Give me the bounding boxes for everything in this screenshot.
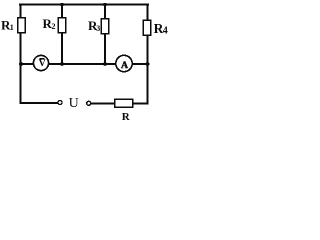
terminal right (-) (87, 101, 91, 105)
wire R to bottom-right corner (133, 102, 149, 104)
wire right branch lower (R4 bottom to bottom-right corner) (147, 35, 149, 104)
resistor R2 (58, 18, 66, 33)
wire R3 top lead (104, 4, 106, 19)
svg-text:2: 2 (52, 22, 56, 31)
resistor R (115, 99, 133, 107)
voltmeter V (33, 55, 48, 70)
ammeter A (116, 55, 132, 71)
resistor R3 (101, 19, 109, 34)
junction middle-right node (146, 62, 150, 66)
svg-text:U: U (69, 96, 79, 111)
wire R2 bottom lead (61, 33, 63, 65)
wire R3 bottom lead (104, 34, 106, 65)
svg-text:R: R (122, 111, 131, 122)
svg-text:1: 1 (10, 23, 14, 32)
svg-text:3: 3 (96, 24, 100, 33)
wire top bus (19, 4, 149, 6)
junction middle-left node (19, 62, 23, 66)
svg-text:A: A (121, 60, 128, 71)
wire terminal to R (91, 102, 115, 104)
resistor R4 (143, 20, 151, 35)
junction R2-top (60, 3, 64, 7)
wire R2 top lead (61, 4, 63, 18)
svg-text:4: 4 (163, 26, 168, 37)
wire left branch lower (R1 bottom to bottom-left corner) (20, 33, 22, 104)
junction R3-bottom (103, 62, 107, 66)
wire R4 top lead (147, 4, 149, 20)
terminal left (+) (58, 101, 62, 105)
svg-text:V: V (39, 58, 46, 69)
wire left branch upper (R1 top lead) (20, 4, 22, 18)
junction R2-bottom (60, 62, 64, 66)
junction R3-top (103, 3, 107, 7)
resistor R1 (18, 18, 26, 33)
wire middle bus center segment (49, 63, 116, 65)
wire middle bus right segment (132, 63, 148, 65)
wire middle bus left segment (20, 63, 34, 65)
wire bottom-left segment (20, 102, 59, 104)
